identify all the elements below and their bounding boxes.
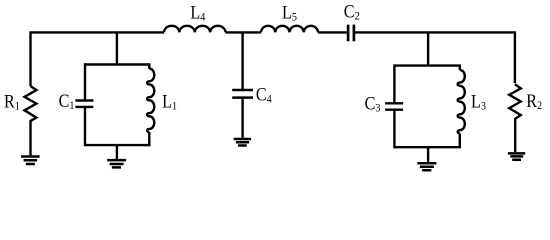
svg-text:L5: L5 (282, 1, 297, 23)
svg-text:C1: C1 (59, 90, 75, 112)
inductor L3 top lead (459, 64, 461, 70)
wire junction drop to left tank and tank top edge (85, 32, 149, 64)
wire right tank bottom edge and ground stem (394, 147, 459, 162)
resistor R2 (509, 84, 521, 152)
label C3 (365, 92, 381, 114)
label R2 (526, 90, 542, 112)
capacitor C3 plates (385, 103, 403, 109)
label C2 (344, 0, 360, 22)
capacitor C1 leads (84, 63, 86, 146)
inductor L3 bottom lead (459, 133, 461, 148)
inductor L1 (147, 69, 154, 133)
ground below R2 (508, 153, 525, 159)
svg-text:R2: R2 (526, 90, 542, 112)
label L3 (471, 90, 486, 112)
svg-text:C2: C2 (344, 0, 360, 22)
capacitor C4 bottom lead (241, 99, 243, 138)
resistor R1 (25, 86, 37, 155)
label R1 (4, 90, 20, 112)
label L1 (162, 90, 177, 112)
wire junction drop to right tank and tank top edge (394, 32, 459, 65)
inductor L5 (261, 26, 318, 33)
svg-text:C3: C3 (365, 92, 381, 114)
inductor L4 (164, 26, 226, 33)
label C1 (59, 90, 75, 112)
svg-text:L4: L4 (190, 1, 205, 23)
inductor L1 top lead (148, 63, 150, 69)
inductor L3 (458, 70, 465, 134)
wire between L5 and C2 (318, 31, 347, 33)
capacitor C4 plates (232, 90, 253, 98)
wire junction drop to C4 (241, 32, 243, 90)
capacitor C2 (348, 25, 354, 42)
label L4 (190, 1, 205, 23)
capacitor C3 leads (393, 64, 395, 148)
label L5 (282, 1, 297, 23)
svg-text:R1: R1 (4, 90, 20, 112)
ground below left tank (107, 160, 126, 167)
svg-text:L1: L1 (162, 90, 177, 112)
ground below R1 (21, 157, 39, 165)
ground below C4 (234, 139, 251, 146)
ground below right tank (417, 163, 436, 170)
wire from C2 to top-right corner down to R2 (355, 32, 515, 83)
svg-text:L3: L3 (471, 90, 486, 112)
capacitor C1 plates (75, 101, 93, 107)
wire left tank bottom edge and ground stem (85, 145, 149, 159)
label C4 (256, 83, 272, 105)
wire between L4 and L5 (226, 31, 262, 33)
wire top-left segment and left vertical drop (31, 32, 165, 86)
inductor L1 bottom lead (148, 132, 150, 146)
svg-text:C4: C4 (256, 83, 272, 105)
